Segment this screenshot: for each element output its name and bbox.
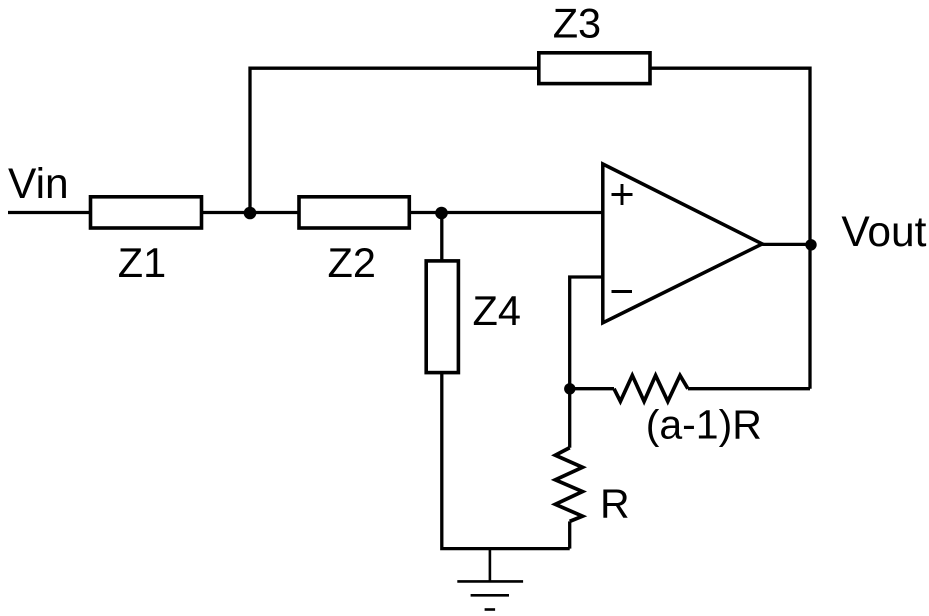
wire R top lead bbox=[568, 389, 571, 448]
op-amp minus symbol bbox=[612, 290, 633, 293]
node C junction dot bbox=[564, 383, 575, 394]
wire node A up and across to Z3 bbox=[250, 68, 539, 212]
wire R bottom lead bbox=[568, 521, 571, 548]
svg-text:Vin: Vin bbox=[8, 161, 69, 208]
svg-text:Vout: Vout bbox=[841, 209, 926, 256]
wire Z4 down and across to ground rail bbox=[442, 373, 570, 549]
svg-text:R: R bbox=[600, 480, 630, 526]
wire Vout node down to feedback corner bbox=[808, 245, 811, 389]
ground stub bbox=[489, 549, 492, 582]
svg-text:Z4: Z4 bbox=[473, 287, 521, 334]
wire Z1 to Z2 bbox=[202, 211, 300, 214]
wire (a-1)R right lead bbox=[688, 387, 810, 390]
wire Z3 to Vout node bbox=[650, 68, 810, 244]
resistor Z3 bbox=[539, 53, 650, 84]
svg-text:Z2: Z2 bbox=[328, 239, 376, 286]
wire (a-1)R left lead bbox=[570, 387, 614, 390]
wire op-amp output bbox=[762, 243, 811, 246]
resistor Z1 bbox=[91, 197, 202, 228]
svg-text:(a-1)R: (a-1)R bbox=[646, 402, 762, 448]
node Vout junction dot bbox=[805, 239, 816, 250]
resistor Z2 bbox=[299, 197, 409, 228]
node A junction dot bbox=[244, 207, 257, 220]
resistor (a-1)R zigzag bbox=[614, 375, 688, 401]
wire Z2 to op-amp non-inverting input bbox=[409, 211, 603, 214]
node B junction dot bbox=[435, 207, 448, 220]
wire Vin lead bbox=[8, 211, 91, 214]
ground bar 3 bbox=[485, 608, 496, 611]
wire inverting input bbox=[570, 277, 603, 389]
wire node B to Z4 bbox=[440, 213, 443, 261]
resistor R zigzag bbox=[555, 448, 582, 522]
impedance Z4 bbox=[426, 261, 458, 373]
op-amp U1 bbox=[603, 164, 762, 323]
svg-text:Z3: Z3 bbox=[553, 0, 601, 46]
svg-text:Z1: Z1 bbox=[118, 239, 166, 286]
ground bar 1 bbox=[457, 580, 523, 583]
op-amp plus symbol bbox=[612, 184, 633, 205]
ground bar 2 bbox=[471, 594, 509, 597]
